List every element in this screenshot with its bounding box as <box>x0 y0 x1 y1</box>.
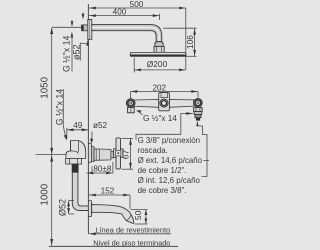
svg-text:de cobre 3/8".: de cobre 3/8". <box>138 186 187 195</box>
mixer center block <box>159 93 170 111</box>
leader to threaded connection note <box>136 112 193 140</box>
valve hex nut <box>66 158 82 164</box>
valve escutcheon side view <box>88 144 91 163</box>
label diameter 52 valve escutcheon <box>90 121 107 144</box>
label 106 <box>185 35 195 49</box>
leader to copper pipe note <box>196 121 209 176</box>
wall line <box>87 4 89 234</box>
svg-text:152: 152 <box>101 187 115 196</box>
svg-text:G 3/8" p/conexión: G 3/8" p/conexión <box>138 136 200 145</box>
mixer crossbar front view <box>134 100 194 108</box>
valve handle hub base <box>114 149 124 158</box>
label 1050 <box>40 76 51 98</box>
dimension 1000 vertical <box>50 155 53 246</box>
label G 1/2 x 14 mixer union <box>136 110 177 123</box>
dimension 49 <box>67 128 89 139</box>
dimension 1050 vertical <box>36 27 88 154</box>
svg-text:roscada.: roscada. <box>138 146 168 155</box>
valve threaded nipple <box>72 164 78 172</box>
shower arm pipe with bend <box>92 25 162 42</box>
svg-text:Ø int. 12,6 p/caño: Ø int. 12,6 p/caño <box>138 176 201 185</box>
valve stem neck <box>111 151 114 158</box>
label 400 <box>113 8 127 17</box>
shower head disc <box>130 52 186 56</box>
valve handle bar <box>116 138 121 169</box>
label 67 <box>120 150 130 160</box>
svg-text:Ø52: Ø52 <box>57 199 67 216</box>
label 49 <box>73 121 83 130</box>
mixer right union ring <box>194 99 203 108</box>
dimension 67 <box>122 138 134 169</box>
dimension 152 <box>89 194 130 209</box>
svg-text:106: 106 <box>185 35 195 49</box>
shower arm wall flange <box>88 20 92 40</box>
dimension diameter 52 spout <box>67 201 74 215</box>
svg-text:1050: 1050 <box>40 76 51 98</box>
svg-text:Línea de revestimiento: Línea de revestimiento <box>95 226 170 235</box>
svg-text:49: 49 <box>73 121 83 130</box>
finish line callout <box>89 226 171 236</box>
floor level line <box>49 238 178 247</box>
valve body side view <box>66 141 86 159</box>
svg-text:202: 202 <box>152 84 166 93</box>
dimension 106 <box>163 28 197 56</box>
spout body <box>92 205 134 224</box>
svg-text:de cobre 1/2".: de cobre 1/2". <box>138 166 187 175</box>
svg-text:80±8: 80±8 <box>93 165 112 174</box>
mixer left union ring <box>126 99 135 108</box>
valve trim collar <box>91 147 94 162</box>
svg-text:G ½"x 14: G ½"x 14 <box>62 36 72 72</box>
dimension 50 spout drop <box>131 209 148 224</box>
label diameter 52 spout <box>57 199 67 216</box>
label 152 <box>101 187 115 196</box>
note text block <box>138 136 203 195</box>
svg-text:400: 400 <box>113 8 127 17</box>
label 500 <box>130 0 144 9</box>
svg-text:Ø200: Ø200 <box>147 59 168 69</box>
label 80+-8 <box>93 165 112 174</box>
svg-text:1000: 1000 <box>40 183 51 205</box>
svg-text:67: 67 <box>120 150 130 160</box>
svg-text:500: 500 <box>130 0 144 9</box>
label 50 <box>133 210 143 220</box>
svg-text:Ø ext. 14,6 p/caño: Ø ext. 14,6 p/caño <box>138 156 203 165</box>
mixer center ring <box>160 99 168 107</box>
shower head nut <box>154 46 164 52</box>
spout flange <box>88 201 93 217</box>
label G 1/2 x 14 shower arm thread <box>62 20 74 72</box>
svg-text:ø52: ø52 <box>93 121 108 130</box>
copper supply pipe to spout <box>72 172 88 210</box>
svg-text:G ½"x 14: G ½"x 14 <box>54 89 64 125</box>
label G 1/2 x 14 valve top connection <box>54 89 67 141</box>
dimension diameter 200 <box>134 58 186 73</box>
label diameter 52 shower flange <box>71 13 89 61</box>
dimension 202 <box>131 90 199 98</box>
valve handle hub square <box>116 151 121 156</box>
dimension 500 <box>89 7 186 70</box>
svg-text:ø52: ø52 <box>71 44 81 60</box>
dimension 80+-8 <box>87 162 113 175</box>
mixer right union nuts <box>194 108 203 121</box>
label 1000 <box>40 183 51 205</box>
svg-text:50: 50 <box>133 210 143 220</box>
label 202 <box>152 84 166 93</box>
shower arm ball joint <box>155 42 163 47</box>
svg-text:G ½"x 14: G ½"x 14 <box>143 114 177 123</box>
valve trim sleeve <box>94 149 111 160</box>
svg-text:Nivel de piso terminado: Nivel de piso terminado <box>93 238 170 247</box>
dimension 400 <box>89 14 159 20</box>
shower arm nipple through wall <box>82 25 88 31</box>
label diameter 200 <box>147 59 168 69</box>
mixer left outlet stub <box>128 107 135 112</box>
